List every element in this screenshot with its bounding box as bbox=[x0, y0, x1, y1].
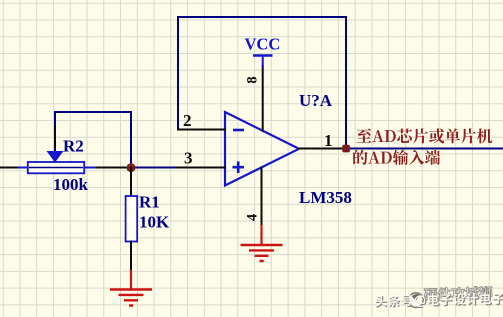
output junction bbox=[342, 145, 350, 153]
node A junction bbox=[127, 163, 136, 172]
wire feedback loop output to pin2 bbox=[178, 17, 346, 149]
R1 bottom pin bbox=[130, 242, 132, 272]
svg-text:U?A: U?A bbox=[299, 91, 333, 110]
watermark shadow 头条号@电子设计电子 bbox=[376, 293, 503, 308]
svg-text:3: 3 bbox=[184, 149, 193, 168]
svg-text:8: 8 bbox=[245, 76, 261, 83]
watermark gray 硬件攻城狮 bbox=[424, 286, 493, 301]
ground below pin4 bbox=[241, 226, 283, 261]
wire input net from left edge bbox=[0, 167, 19, 169]
wire R2 wiper loop bbox=[55, 112, 131, 168]
svg-text:4: 4 bbox=[245, 214, 261, 221]
svg-text:VCC: VCC bbox=[245, 35, 281, 54]
svg-text:R1: R1 bbox=[139, 193, 160, 212]
svg-text:1: 1 bbox=[324, 131, 333, 150]
R2 wiper arrow bbox=[47, 126, 64, 163]
net label line2 的AD输入端 bbox=[353, 150, 440, 165]
svg-text:2: 2 bbox=[183, 111, 192, 130]
svg-text:R2: R2 bbox=[63, 137, 84, 156]
power VCC symbol bbox=[253, 56, 273, 67]
pin 2 bbox=[178, 129, 225, 131]
op-amp plus mark bbox=[233, 161, 245, 173]
pin 8 bbox=[262, 66, 264, 131]
pin 4 bbox=[261, 168, 263, 227]
R1 top pin bbox=[130, 168, 132, 197]
wire output to right edge bbox=[346, 148, 503, 150]
watermark white 头条号@电子设计电子 bbox=[375, 292, 503, 307]
wire R2 right lead to node A bbox=[95, 167, 131, 169]
watermark toutiao logo circle bbox=[408, 293, 423, 308]
op-amp U1 triangle bbox=[225, 112, 299, 186]
pin 3 bbox=[176, 167, 225, 169]
resistor R1 body bbox=[126, 196, 138, 242]
pin 1 bbox=[299, 148, 346, 150]
ground below R1 bbox=[110, 271, 152, 306]
resistor R2 body bbox=[19, 162, 95, 173]
wire node A to pin3 bbox=[131, 167, 176, 169]
net label line1 至AD芯片或单片机 bbox=[357, 128, 493, 143]
svg-text:100k: 100k bbox=[53, 175, 89, 194]
op-amp minus mark bbox=[233, 129, 244, 132]
svg-text:10K: 10K bbox=[139, 213, 170, 232]
svg-text:LM358: LM358 bbox=[299, 188, 352, 207]
